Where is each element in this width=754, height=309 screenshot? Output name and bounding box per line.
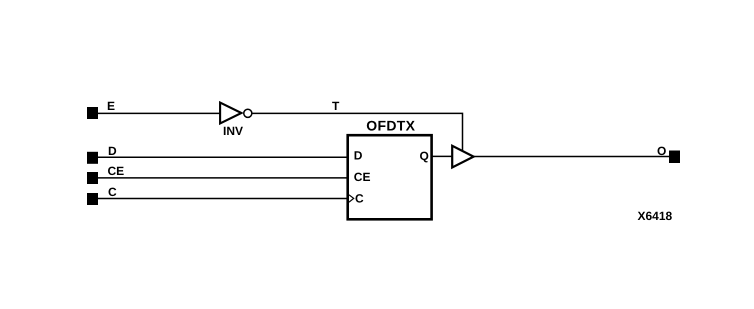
svg-text:D: D xyxy=(108,144,117,158)
inverter INV xyxy=(220,103,241,124)
svg-text:D: D xyxy=(354,149,363,163)
terminal E (input pad) xyxy=(87,107,98,119)
wire Q to buffer xyxy=(431,155,452,157)
svg-text:X6418: X6418 xyxy=(638,209,673,223)
terminal D (input pad) xyxy=(87,152,98,164)
svg-text:OFDTX: OFDTX xyxy=(366,118,415,134)
svg-text:INV: INV xyxy=(223,124,243,138)
svg-text:E: E xyxy=(107,99,115,113)
clock wedge xyxy=(349,195,354,202)
wire D xyxy=(98,156,348,158)
tri-state buffer xyxy=(452,146,473,168)
svg-text:Q: Q xyxy=(420,149,429,163)
wire buffer output to O xyxy=(474,156,669,158)
wire C xyxy=(98,198,348,200)
terminal O (output pad) xyxy=(669,151,680,164)
wire T: inverter output to buffer control xyxy=(252,113,462,150)
svg-text:CE: CE xyxy=(354,170,371,184)
svg-text:O: O xyxy=(657,144,666,158)
svg-text:CE: CE xyxy=(108,164,125,178)
terminal C (input pad) xyxy=(87,193,98,205)
svg-text:C: C xyxy=(355,192,364,206)
flip-flop U1 OFDTX body xyxy=(348,135,432,219)
terminal CE (input pad) xyxy=(87,172,98,184)
wire E to inverter xyxy=(98,112,220,114)
svg-text:C: C xyxy=(108,185,117,199)
svg-text:T: T xyxy=(332,99,340,113)
wire CE xyxy=(98,177,348,179)
